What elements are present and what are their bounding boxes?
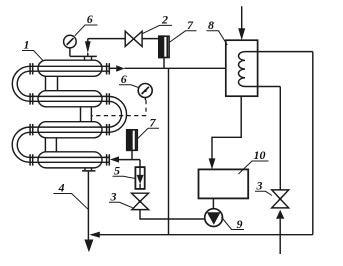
top nozzle plate on pass 1 — [82, 56, 97, 60]
tank T10 — [199, 169, 249, 198]
pump P9 — [205, 209, 223, 227]
wire right riser down — [312, 52, 314, 235]
svg-text:1: 1 — [24, 37, 30, 51]
flange pass1 left — [30, 63, 33, 74]
heat exchanger E1 shell pass 3 — [38, 122, 102, 138]
label 8 — [207, 31, 228, 45]
wire exchanger outlet to heater U8 — [124, 67, 225, 69]
inlet arrow into exchanger — [87, 39, 89, 57]
drain header wire — [100, 234, 313, 236]
shell connector passes 3-4 — [45, 138, 56, 152]
outlet arrow pass 1 to heater — [110, 67, 116, 69]
label 3 right — [255, 191, 272, 195]
valve V3R — [272, 190, 289, 208]
pressure gauge PG1 stem — [70, 48, 82, 57]
label 2 — [143, 25, 173, 33]
wire coil bottom outlet — [258, 86, 281, 88]
wire return into pass 4 — [119, 160, 140, 168]
svg-text:2: 2 — [161, 12, 168, 26]
shell connector passes 2-3 — [81, 107, 92, 122]
shell connector passes 1-2 — [46, 76, 58, 90]
flange pass1 right — [107, 63, 110, 74]
flange pass4 right — [107, 154, 110, 165]
heater U8 vessel — [226, 40, 258, 96]
svg-text:8: 8 — [208, 18, 214, 32]
inner pipe pass 2 — [30, 96, 109, 101]
flange pass3 right — [107, 124, 110, 135]
label 6 middle — [119, 85, 138, 88]
wire rotameter FM1 down to pipe — [163, 58, 165, 69]
svg-text:6: 6 — [87, 12, 93, 26]
label 5 — [113, 176, 136, 178]
svg-text:7: 7 — [187, 18, 194, 32]
heater top feed wire — [241, 6, 243, 28]
svg-text:7: 7 — [150, 115, 157, 129]
drain header arrow left — [89, 232, 100, 238]
label 7 top — [169, 31, 196, 43]
label 7 middle — [138, 128, 159, 138]
label 9 — [221, 217, 244, 230]
inner pipe pass 3 — [30, 127, 109, 132]
flange pass2 right — [107, 93, 110, 104]
wire tank T10 to pump P9 — [212, 198, 214, 208]
drain line 4 arrow — [84, 240, 93, 253]
wire heater bottom outlet to tank T10 — [212, 96, 241, 158]
valve V3L — [132, 193, 149, 209]
wire supply to valve V2 — [88, 38, 125, 40]
wire coil top outlet to right riser — [258, 51, 313, 53]
svg-text:10: 10 — [254, 148, 266, 162]
svg-text:3: 3 — [256, 178, 263, 192]
gauge PG2 stub — [144, 98, 146, 101]
heat exchanger E1 shell pass 2 — [38, 91, 102, 107]
arrow into tank T10 — [209, 158, 216, 169]
wire rotameter FM2 down — [131, 150, 133, 159]
label 10 — [238, 161, 268, 174]
label 1 — [22, 51, 43, 61]
label 6 top — [75, 25, 98, 36]
U-bend right middle — [109, 96, 127, 132]
svg-text:5: 5 — [114, 163, 120, 177]
drain line 4 wire — [87, 171, 89, 240]
valve V2 — [125, 31, 142, 46]
arrow up into valve V3R — [276, 210, 284, 219]
svg-text:4: 4 — [58, 181, 65, 195]
wire down to valve V3R — [279, 87, 281, 190]
bottom nozzle plate on pass 4 — [82, 168, 96, 171]
pressure gauge PG2 — [138, 84, 152, 98]
heater top feed arrow — [238, 28, 245, 40]
U-bend left upper — [12, 66, 30, 101]
label 4 — [53, 194, 88, 210]
label 3 left — [109, 202, 133, 207]
flange pass3 left — [30, 124, 33, 135]
heat exchanger E1 shell pass 1 — [38, 60, 102, 76]
filter F5 — [135, 167, 144, 189]
inner pipe pass 4 — [30, 157, 110, 162]
svg-text:9: 9 — [237, 217, 243, 231]
U-bend left lower — [12, 127, 30, 162]
wire branch down to drain header — [168, 68, 170, 234]
flange pass2 left — [30, 93, 33, 104]
wire valve V3L to pump P9 — [140, 210, 205, 219]
wire valve V2 to rotameter FM1 — [142, 38, 159, 40]
heat exchanger E1 shell pass 4 — [38, 152, 102, 168]
rotameter FM2 — [127, 130, 138, 151]
inner pipe pass 1 — [30, 66, 110, 71]
dashed impulse line to gauge PG2 — [92, 100, 146, 116]
rotameter FM1 — [159, 36, 169, 57]
return arrow into pass 4 — [110, 156, 119, 162]
flange pass4 left — [30, 154, 33, 165]
heater U8 coil — [238, 52, 257, 87]
pressure gauge PG1 — [64, 35, 77, 48]
svg-text:3: 3 — [110, 189, 117, 203]
svg-text:6: 6 — [121, 72, 127, 86]
wire bottom inlet to valve V3R — [279, 219, 281, 254]
